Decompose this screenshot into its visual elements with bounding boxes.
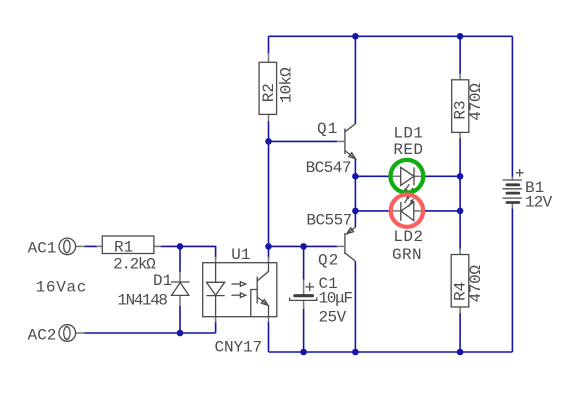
pin R3 top: [459, 74, 461, 80]
junction D1 AC2: [177, 330, 184, 337]
wire B1 plus to rail: [511, 36, 513, 177]
wire D1 bottom to AC2 net: [179, 306, 181, 334]
LED LD1 green highlight circle: [391, 160, 424, 193]
transistor Q1 BC547: [306, 120, 356, 177]
pin U1 collector: [268, 257, 270, 263]
pin C1 plus: [303, 280, 305, 295]
resistor R4: [451, 255, 485, 308]
pin AC1: [76, 245, 85, 247]
svg-text:Q2: Q2: [318, 252, 340, 270]
wire LD1 to LD2 link: [354, 176, 356, 211]
pin U1 emitter: [268, 317, 270, 323]
junction LD2 right: [457, 208, 464, 215]
pin B1 plus: [511, 177, 513, 181]
pin B1 minus: [511, 203, 513, 209]
wire LD1 row right: [422, 175, 460, 177]
svg-text:AC2: AC2: [28, 326, 57, 344]
LED LD2 GRN: [392, 195, 423, 264]
svg-text:U1: U1: [231, 246, 250, 264]
svg-text:R1: R1: [114, 238, 133, 256]
svg-text:25V: 25V: [319, 308, 347, 326]
wire Q1 collector to rail: [354, 36, 356, 124]
wire node to U1 collector: [268, 141, 270, 258]
pin R4 top: [459, 249, 461, 255]
wire LD2 row left: [355, 210, 390, 212]
wire R4 bottom: [459, 313, 461, 352]
wire bottom rail GND: [269, 351, 513, 353]
pin LD1 cathode: [414, 175, 422, 177]
wire R2 bottom to node: [268, 121, 270, 141]
wire top rail V+: [269, 35, 513, 37]
LED LD2 red highlight circle: [391, 195, 423, 227]
wire AC1 to R1: [84, 245, 97, 247]
wire B1 minus to bottom rail: [511, 208, 513, 352]
svg-text:CNY17: CNY17: [215, 339, 263, 357]
terminal AC1: [28, 238, 76, 257]
svg-text:12V: 12V: [525, 193, 553, 211]
junction R4 bottom rail: [457, 349, 464, 356]
svg-text:2.2kΩ: 2.2kΩ: [113, 256, 156, 274]
svg-text:AC1: AC1: [28, 239, 57, 257]
pin D1 cathode: [179, 272, 181, 283]
pin R2 top: [268, 53, 270, 62]
junction top rail R3: [457, 33, 464, 40]
pin Q1 base: [337, 140, 344, 142]
junction LD1 right: [457, 173, 464, 180]
wire Q2 base: [269, 245, 338, 247]
svg-text:Q1: Q1: [317, 120, 339, 138]
svg-text:1N4148: 1N4148: [117, 292, 167, 310]
junction Q2 collector rail: [352, 349, 359, 356]
svg-text:BC547: BC547: [306, 159, 351, 177]
diode D1 1N4148: [117, 272, 189, 310]
pin D1 anode: [179, 295, 181, 306]
wire U1 emitter to bottom rail: [268, 322, 270, 353]
wire U1 cathode riser: [215, 322, 217, 334]
wire C1 bottom: [303, 309, 305, 353]
svg-text:D1: D1: [153, 272, 172, 290]
svg-text:470Ω: 470Ω: [467, 265, 485, 303]
pin Q2 base: [337, 245, 344, 247]
svg-text:470Ω: 470Ω: [467, 83, 485, 121]
wire AC2 to U1 cathode: [84, 332, 216, 334]
wire D1 top branch: [179, 246, 181, 272]
svg-text:BC557: BC557: [306, 212, 351, 230]
junction C1 top: [300, 243, 307, 250]
pin R2 bottom: [268, 114, 270, 121]
svg-text:GRN: GRN: [392, 246, 422, 264]
pin R1 left: [97, 245, 103, 247]
junction top rail Q1: [352, 33, 359, 40]
wire R3 top to rail: [459, 36, 461, 74]
wire Q2 collector down: [354, 261, 356, 352]
wire LD2 row right: [422, 210, 460, 212]
junction LD1 left: [352, 173, 359, 180]
wire Q1 emitter down: [354, 159, 356, 177]
junction U1 collector Q2 base: [265, 243, 272, 250]
pin AC2: [76, 332, 85, 334]
wire Q2 emitter up: [354, 211, 356, 227]
pin R1 right: [154, 245, 161, 247]
pin LD2 anode: [414, 210, 422, 212]
wire C1 top branch: [303, 246, 305, 280]
junction LD2 left: [352, 208, 359, 215]
optocoupler U1 CNY17: [203, 246, 277, 357]
svg-text:16Vac: 16Vac: [36, 278, 88, 296]
svg-text:R2: R2: [260, 83, 278, 102]
svg-text:10kΩ: 10kΩ: [278, 67, 296, 103]
junction R1 D1: [177, 243, 184, 250]
wire Q1 base: [269, 140, 338, 142]
battery B1: [503, 169, 553, 211]
pin R3 bottom: [459, 132, 461, 138]
wire R3 bottom: [459, 138, 461, 176]
pin U1 anode: [215, 257, 217, 263]
svg-text:RED: RED: [393, 141, 423, 159]
pin LD1 anode: [390, 175, 400, 177]
wire R1 to U1 anode: [161, 246, 216, 258]
LED LD1 RED: [393, 125, 423, 197]
wire LD1 row left: [355, 175, 390, 177]
wire R3 to R4 link: [459, 176, 461, 249]
pin LD2 cathode: [390, 210, 401, 212]
junction R2 bottom Q1 base: [265, 138, 272, 145]
pin C1 minus: [303, 301, 305, 310]
terminal AC2: [28, 325, 76, 345]
resistor R2: [259, 62, 295, 114]
svg-text:LD2: LD2: [393, 228, 423, 246]
pin R4 bottom: [459, 307, 461, 314]
wire R2 top to rail: [268, 36, 270, 53]
transistor Q2 BC557: [306, 212, 355, 270]
resistor R3: [451, 80, 485, 133]
resistor R1: [102, 236, 156, 274]
pin U1 cathode: [215, 317, 217, 323]
junction C1 bottom rail: [300, 349, 307, 356]
svg-text:10μF: 10μF: [319, 290, 353, 308]
capacitor C1: [290, 275, 353, 326]
